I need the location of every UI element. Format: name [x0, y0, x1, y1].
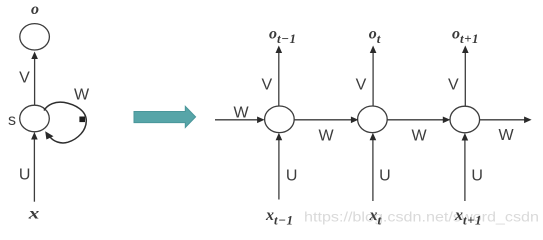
svg-text:W: W [233, 105, 249, 122]
svg-text:W: W [411, 127, 427, 144]
label W between t and t+1 [411, 127, 427, 144]
svg-text:V: V [448, 77, 459, 94]
label x t+1 [454, 207, 482, 228]
wire W node t-1 to node t [294, 117, 358, 124]
label x t [369, 207, 382, 228]
node t+1 circle [450, 106, 480, 133]
wire V arrow node t-1 to o t-1 [276, 46, 283, 107]
big teal arrow [134, 106, 196, 127]
wire W out of node t+1 [480, 117, 532, 124]
label U left [19, 166, 31, 183]
svg-text:U: U [379, 168, 391, 185]
label V node t+1 [448, 77, 459, 94]
label o t-1 [269, 25, 297, 46]
label V left [19, 70, 30, 87]
wire W into node t-1 [215, 117, 265, 124]
svg-text:U: U [286, 168, 298, 185]
svg-text:V: V [261, 77, 272, 94]
svg-text:V: V [19, 70, 30, 87]
self-loop W arc [44, 102, 86, 143]
label V node t-1 [261, 77, 272, 94]
svg-text:s: s [8, 112, 16, 129]
label U node t+1 [471, 168, 483, 185]
wire V arrow (s to o) [31, 52, 38, 105]
label o t [369, 25, 381, 46]
wire U arrow x t+1 to node t+1 [462, 133, 469, 201]
svg-text:W: W [318, 127, 334, 144]
svg-text:U: U [19, 166, 31, 183]
svg-text:W: W [74, 87, 90, 104]
node o label [31, 1, 39, 18]
label W between t-1 and t [318, 127, 334, 144]
node x label [27, 206, 39, 223]
label x t-1 [265, 207, 294, 228]
wire V arrow node t to o t [370, 46, 377, 107]
label o t+1 [452, 25, 479, 46]
node t-1 circle [265, 106, 295, 133]
label W before node t-1 [233, 105, 249, 122]
node o circle [20, 24, 50, 50]
wire V arrow node t+1 to o t+1 [462, 46, 469, 107]
label s [8, 112, 16, 129]
svg-text:U: U [471, 168, 483, 185]
watermark https://blog.csdn.net/sword_csdn [304, 209, 539, 224]
svg-text:x: x [27, 206, 39, 223]
node s circle [20, 105, 50, 132]
svg-text:W: W [498, 127, 514, 144]
wire U arrow (x to s) [31, 132, 38, 202]
square marker on loop [79, 117, 85, 123]
label V node t [356, 77, 367, 94]
svg-text:https://blog.csdn.net/sword_cs: https://blog.csdn.net/sword_csdn [304, 209, 539, 224]
label W after t+1 [498, 127, 514, 144]
wire U arrow x t-1 to node t-1 [276, 133, 283, 200]
node t circle [358, 106, 388, 133]
wire W node t to node t+1 [387, 117, 450, 124]
label W left diagram [74, 87, 90, 104]
svg-text:V: V [356, 77, 367, 94]
label U node t [379, 168, 391, 185]
wire U arrow x t to node t [370, 133, 377, 201]
label U node t-1 [286, 168, 298, 185]
svg-text:o: o [31, 1, 39, 18]
